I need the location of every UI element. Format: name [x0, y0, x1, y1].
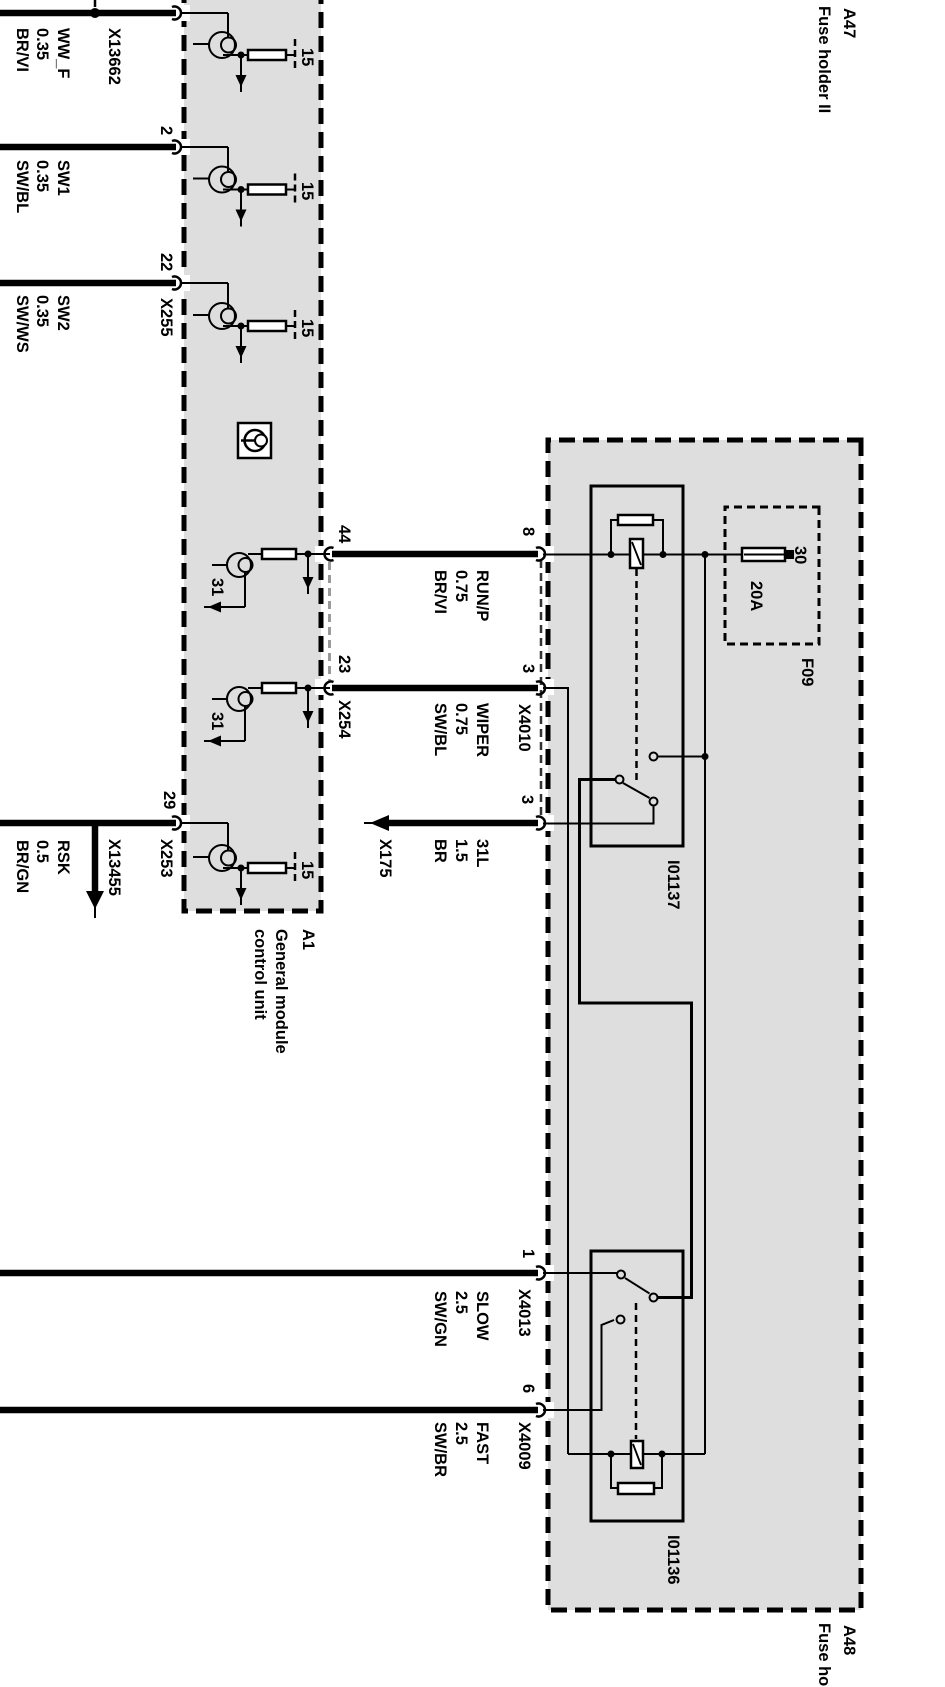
- svg-text:15: 15: [298, 182, 316, 200]
- svg-text:15: 15: [298, 319, 316, 337]
- connector arc A47 wire FAST: [536, 1404, 545, 1417]
- svg-text:A1: A1: [299, 929, 317, 950]
- wire WIPER inside A47 (thin): [543, 688, 568, 1454]
- white notch A47 bottom border wire FAST: [542, 1402, 554, 1418]
- svg-text:A48: A48: [840, 1625, 858, 1655]
- svg-text:I01136: I01136: [664, 1535, 682, 1585]
- output driver Q1 (input WW_F): [182, 13, 316, 92]
- svg-text:SW1: SW1: [54, 160, 72, 196]
- connector arc A1 wire RSK: [172, 817, 181, 830]
- relay I01137 contact arm: [623, 783, 650, 798]
- svg-text:SW/BR: SW/BR: [431, 1422, 449, 1477]
- svg-text:SW/GN: SW/GN: [431, 1291, 449, 1347]
- svg-text:31: 31: [208, 712, 226, 730]
- svg-text:20A: 20A: [747, 581, 765, 611]
- main supply line from RUN/P through relay to fuse: [543, 554, 742, 556]
- wire WIPER 23 to 3 (thick): [332, 685, 538, 692]
- connector arc A1 wire RUN/P: [325, 548, 334, 561]
- wire SW1 (thick, to bottom edge): [0, 144, 176, 151]
- svg-text:44: 44: [335, 525, 353, 544]
- svg-text:BR/VI: BR/VI: [431, 570, 449, 614]
- splice X13455 arrow (thick, points right): [92, 823, 99, 893]
- svg-text:X175: X175: [376, 839, 394, 878]
- svg-text:control unit: control unit: [251, 929, 269, 1020]
- svg-text:BR/VI: BR/VI: [13, 28, 31, 72]
- relay I01136 contact FAST: [543, 1316, 625, 1411]
- relay I01136 contact arm: [625, 1278, 650, 1294]
- svg-text:RSK: RSK: [54, 840, 72, 875]
- svg-text:A47: A47: [840, 8, 858, 38]
- relay I01136 suppression resistor: [608, 1451, 666, 1495]
- wire SLOW (thick, to bottom edge): [0, 1270, 538, 1277]
- svg-text:X255: X255: [157, 298, 175, 337]
- connector arc A47 wire RUN/P: [536, 548, 545, 561]
- fuse box F09 (dashed): [725, 507, 819, 644]
- svg-text:I01137: I01137: [664, 860, 682, 910]
- fuse holder A47 box (grey dashed): [548, 440, 861, 1610]
- svg-text:8: 8: [519, 527, 537, 536]
- junction dot branch / main: [702, 551, 709, 558]
- svg-text:SW/BL: SW/BL: [13, 160, 31, 213]
- svg-text:30: 30: [791, 546, 809, 564]
- svg-text:1.5: 1.5: [452, 839, 470, 862]
- connector housing X4010 dashed line: [540, 560, 543, 818]
- wire RSK (thick, to bottom edge): [0, 820, 176, 827]
- svg-text:0.35: 0.35: [33, 295, 51, 327]
- connector arc A1 wire WIPER: [325, 682, 334, 695]
- wire WW_F (thick, to bottom edge): [0, 10, 176, 17]
- white notch A47 bottom border wire RUN/P: [542, 546, 554, 562]
- svg-text:0.75: 0.75: [452, 703, 470, 735]
- connector arc A47 wire 31L: [536, 817, 545, 830]
- relay I01136 actuator dashed line: [635, 1303, 638, 1439]
- white notch A47 bottom border wire 31L: [542, 815, 554, 831]
- svg-text:BR: BR: [431, 839, 449, 863]
- svg-text:Fuse holder I: Fuse holder I: [815, 1623, 833, 1687]
- white notch A1 top border wire WIPER: [315, 679, 327, 695]
- connector X13662 dot on wire WW_F: [90, 8, 100, 18]
- connector arc A1 wire SW2: [172, 277, 181, 290]
- relay I01137 coil (rect with diagonal): [630, 539, 643, 568]
- svg-text:BR/GN: BR/GN: [13, 840, 31, 893]
- relay I01137 contact NO (to terminal 30): [650, 753, 709, 761]
- svg-text:RUN/P: RUN/P: [473, 570, 491, 621]
- svg-text:WW_F: WW_F: [54, 28, 72, 78]
- svg-text:Fuse holder II: Fuse holder II: [815, 6, 833, 113]
- svg-text:X4009: X4009: [515, 1422, 533, 1470]
- relay I01136 contact SLOW: [543, 1271, 625, 1279]
- svg-text:22: 22: [157, 253, 175, 271]
- svg-text:0.35: 0.35: [33, 160, 51, 192]
- wire SW2 (thick, to bottom edge): [0, 280, 176, 287]
- clock symbol in A1: [238, 423, 271, 458]
- relay I01137 actuator dashed line: [635, 569, 638, 780]
- svg-text:X253: X253: [157, 839, 175, 878]
- svg-text:31L: 31L: [473, 839, 491, 867]
- svg-text:3: 3: [519, 664, 537, 673]
- svg-text:29: 29: [160, 791, 178, 809]
- svg-text:X13455: X13455: [105, 839, 123, 896]
- svg-text:0.35: 0.35: [33, 28, 51, 60]
- white notch A1 bottom border wire SW2: [178, 275, 190, 291]
- connector housing X254 dashed line (grey): [328, 562, 331, 682]
- svg-text:0.75: 0.75: [452, 570, 470, 602]
- svg-text:15: 15: [298, 861, 316, 879]
- ground arrow X175 (points down): [370, 815, 389, 831]
- white notch A47 bottom border wire SLOW: [542, 1265, 554, 1281]
- svg-text:X13662: X13662: [105, 28, 123, 85]
- connector arc A1 wire WW_F: [172, 7, 181, 20]
- relay I01136 coil (rect with diagonal): [631, 1441, 643, 1468]
- white notch A1 bottom border wire RSK: [178, 815, 190, 831]
- relay I01137 contact NC (to 31L): [543, 798, 658, 824]
- relay K2 coil feed line: [568, 1453, 705, 1455]
- svg-text:31: 31: [208, 578, 226, 596]
- svg-text:2.5: 2.5: [452, 1422, 470, 1445]
- svg-text:General module: General module: [272, 929, 290, 1054]
- connector arc A47 wire WIPER: [536, 682, 545, 695]
- relay I01136 body: [591, 1251, 683, 1521]
- svg-text:2.5: 2.5: [452, 1291, 470, 1314]
- svg-text:SW2: SW2: [54, 295, 72, 331]
- white notch A1 top border wire RUN/P: [315, 546, 327, 562]
- relay I01137 suppression resistor: [608, 515, 667, 558]
- terminal 30 branch line (to both relays): [704, 555, 706, 1455]
- output driver Q5 (output WIPER pin 23): [204, 683, 330, 747]
- relay I01137 contact common (to relay 2): [580, 776, 692, 1298]
- output driver Q2 (input SW1): [182, 147, 316, 227]
- relay I01136 contact common: [650, 1294, 658, 1302]
- svg-text:SW/BL: SW/BL: [431, 703, 449, 756]
- output driver Q4 (output RUN/P pin 44): [204, 549, 330, 613]
- output driver Q6 (input RSK): [182, 823, 316, 905]
- fuse F09 element: [742, 548, 794, 561]
- svg-text:23: 23: [335, 655, 353, 673]
- svg-text:1: 1: [519, 1249, 537, 1258]
- svg-text:2: 2: [157, 126, 175, 135]
- connector arc A47 wire SLOW: [536, 1267, 545, 1280]
- svg-text:FAST: FAST: [473, 1422, 491, 1464]
- svg-text:15: 15: [298, 48, 316, 66]
- white notch A1 bottom border wire WW_F: [178, 5, 190, 21]
- svg-text:X254: X254: [335, 700, 353, 739]
- white notch A1 bottom border wire SW1: [178, 139, 190, 155]
- svg-text:6: 6: [519, 1384, 537, 1393]
- wire 31L (thick, to ground arrow): [388, 820, 538, 827]
- white notch A47 bottom border wire WIPER: [542, 679, 554, 695]
- svg-text:0.5: 0.5: [33, 840, 51, 863]
- svg-text:SLOW: SLOW: [473, 1291, 491, 1341]
- wire RUN/P 44 to 8 (thick): [332, 551, 538, 558]
- svg-text:F09: F09: [798, 658, 816, 686]
- svg-text:SW/WS: SW/WS: [13, 295, 31, 353]
- svg-text:WIPER: WIPER: [473, 703, 491, 757]
- wire FAST (thick, to bottom edge): [0, 1407, 538, 1414]
- control unit A1 box (grey dashed): [184, 0, 321, 911]
- connector arc A1 wire SW1: [172, 141, 181, 154]
- svg-text:3: 3: [518, 795, 536, 804]
- svg-text:X4013: X4013: [515, 1289, 533, 1337]
- output driver Q3 (input SW2): [182, 283, 316, 363]
- connector X13662 dash mark: [94, 0, 97, 7]
- svg-text:X4010: X4010: [515, 704, 533, 752]
- relay I01137 body: [591, 486, 683, 846]
